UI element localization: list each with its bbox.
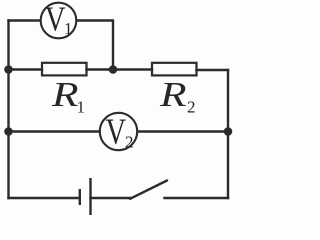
- resistor R2: [152, 63, 197, 76]
- battery B1 long plate: [89, 178, 91, 215]
- wire resistor row left: [9, 68, 43, 70]
- svg-text:2: 2: [187, 98, 196, 117]
- svg-text:1: 1: [64, 19, 73, 38]
- svg-text:2: 2: [125, 132, 134, 151]
- wire top-right from V1 down to node at R1-R2: [77, 21, 113, 70]
- wire V2 row left: [9, 130, 100, 132]
- wire bottom-left to battery: [9, 197, 80, 199]
- svg-text:R: R: [51, 75, 79, 114]
- label R2: [159, 75, 196, 117]
- voltmeter V2: [100, 112, 137, 153]
- wire top-left from V1 to left rail: [9, 19, 41, 21]
- wire battery to switch: [91, 197, 131, 199]
- switch S1 blade: [130, 181, 167, 199]
- wire between R1 and R2: [87, 68, 153, 70]
- svg-text:R: R: [159, 75, 187, 114]
- wire left rail: [7, 21, 9, 199]
- battery B1 short plate: [79, 189, 81, 205]
- label R1: [51, 75, 85, 117]
- wire V2 row right: [138, 130, 228, 132]
- voltmeter V1: [41, 0, 77, 38]
- svg-text:V: V: [106, 112, 127, 153]
- wire resistor row right to right rail: [197, 69, 229, 71]
- svg-text:1: 1: [77, 98, 86, 117]
- node left at R row: [4, 65, 13, 74]
- wire switch to bottom-right corner: [165, 197, 229, 199]
- node right at V2 row: [224, 127, 233, 136]
- svg-text:V: V: [45, 0, 66, 38]
- node between R1 and R2: [109, 65, 118, 74]
- node left at V2 row: [4, 127, 13, 136]
- resistor R1: [42, 63, 87, 76]
- wire right rail: [227, 70, 229, 198]
